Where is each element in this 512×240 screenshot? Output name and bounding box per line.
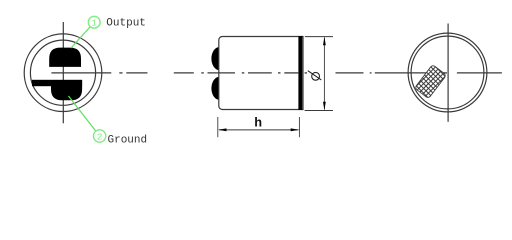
dimension h: extension line right — [298, 117, 300, 137]
horizontal centerline (left view, dash-dot) — [51, 72, 147, 74]
dimension dia: extension line bottom — [305, 110, 333, 112]
leader line to pin 2 — [69, 96, 96, 131]
leader line to pin 1 — [71, 27, 90, 48]
balloon circle pin 2 — [93, 130, 105, 142]
dimension dia: bottom arrowhead — [323, 102, 326, 111]
svg-text:h: h — [254, 115, 262, 130]
svg-text:1: 1 — [91, 18, 97, 29]
dimension dia: dimension line — [323, 38, 325, 110]
dimension h: extension line left — [217, 117, 219, 137]
horizontal centerline (middle, dash-dot) — [174, 72, 307, 74]
svg-text:2: 2 — [97, 132, 103, 143]
dimension dia: top arrowhead — [323, 37, 326, 46]
label patch outline — [415, 65, 447, 99]
front face band (side view) — [298, 36, 302, 110]
dimension dia: extension line top — [305, 36, 333, 38]
label patch (hatched) — [395, 0, 465, 184]
dimension dia: diameter symbol — [312, 72, 320, 80]
pin bump top (side view) — [211, 47, 227, 70]
dimension h: left arrowhead — [218, 128, 227, 131]
inner circle (front view) — [30, 40, 95, 105]
inner circle (back view) — [411, 36, 484, 109]
outer circle (mic can rim, front view) — [24, 34, 102, 112]
dimension h: right arrowhead — [291, 128, 300, 131]
pin bump bottom (side view) — [211, 77, 227, 100]
svg-text:Output: Output — [106, 18, 146, 30]
outer circle (back view) — [408, 33, 487, 112]
solder pad 1 (Output, top, dome) — [49, 48, 81, 67]
can body (side view) — [219, 37, 303, 110]
svg-text:Ground: Ground — [108, 134, 148, 146]
solder pad 2 (Ground, bottom, bar + dome) — [32, 80, 82, 86]
balloon circle pin 1 — [88, 16, 100, 28]
dimension h: dimension line — [219, 129, 298, 131]
vertical centerline (right view) — [447, 24, 449, 122]
horizontal centerline (right side, dash-dot) — [336, 72, 502, 74]
vertical centerline (left view) — [62, 22, 64, 123]
